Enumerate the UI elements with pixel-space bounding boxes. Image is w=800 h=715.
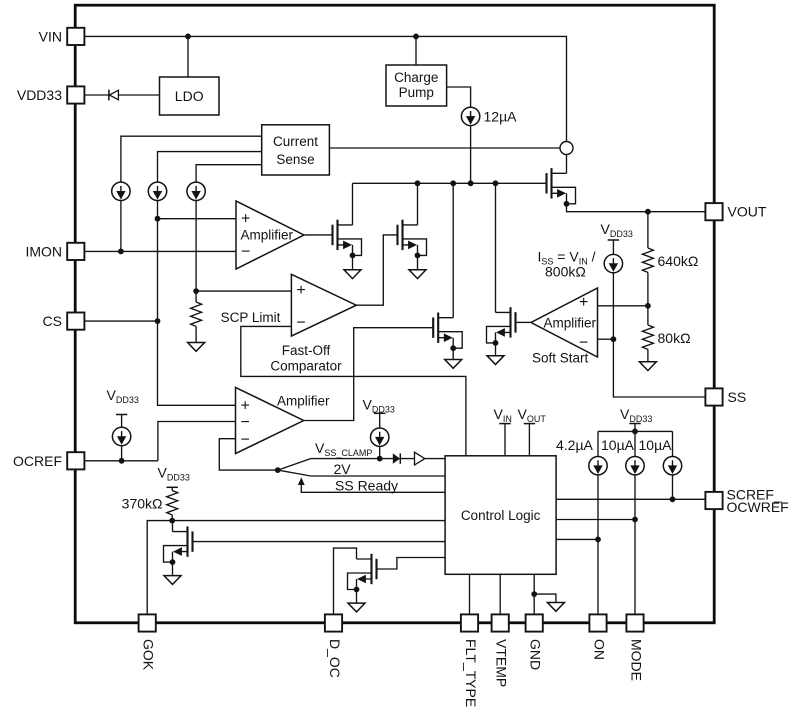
pin GOK [139, 614, 156, 631]
svg-text:ON: ON [591, 639, 607, 660]
sense element circle [560, 142, 573, 155]
wire SCP output to M2 gate [356, 235, 397, 305]
wire ChargePump top stem [415, 36, 417, 65]
node I1 to IMON [120, 201, 122, 252]
transistor M4 fast-off [433, 313, 462, 352]
svg-text:Amplifier: Amplifier [241, 228, 294, 243]
wire SCP plus input [196, 290, 291, 292]
node switch pivot [275, 467, 281, 473]
pin VIN [67, 28, 84, 45]
svg-text:−: − [241, 414, 250, 431]
pin CS [67, 313, 84, 330]
node amp1 plus junction [155, 216, 161, 222]
wire LDO top stem [187, 36, 189, 77]
wire D_OC net [334, 548, 357, 614]
pin VTEMP [492, 614, 509, 631]
ground under M7 [348, 603, 365, 612]
diode D2 [393, 453, 400, 463]
wire OCREF vdd source to OCREF [121, 415, 123, 461]
svg-text:CS: CS [43, 313, 62, 329]
pin ON [589, 614, 606, 631]
node ON junction [595, 537, 601, 543]
ground under M2 [409, 270, 426, 279]
node VIN-LDO junction [185, 34, 191, 40]
switch blade upper [278, 459, 311, 471]
svg-text:VIN: VIN [494, 406, 512, 424]
pin VDD33 [67, 86, 84, 103]
svg-text:MODE: MODE [628, 639, 644, 681]
wire VIN top rail [84, 36, 566, 141]
wire OCREF amp minus1 input [158, 422, 236, 461]
pin OCREF [67, 452, 84, 469]
svg-text:VOUT: VOUT [728, 204, 767, 220]
node SCREF junction [670, 496, 676, 502]
wire ON rail [597, 475, 599, 615]
transistor M1 [333, 220, 362, 259]
node M5 drain on bus [493, 180, 499, 186]
svg-text:2V: 2V [334, 461, 352, 477]
current source I3 [187, 182, 205, 200]
wire bias bus [598, 424, 673, 457]
wire M5 drain [495, 183, 497, 312]
svg-text:Sense: Sense [276, 152, 314, 167]
pin VOUT [705, 203, 722, 220]
wire M6 drain [172, 521, 174, 532]
op-amp U3 OCREF amplifier [236, 387, 304, 453]
svg-text:4.2µA: 4.2µA [556, 437, 594, 453]
wire M7 gate line [377, 558, 446, 570]
wire soft start amp output to M5 gate [516, 321, 532, 323]
wire CurrentSense output to sense circle [329, 147, 560, 149]
Current Sense block [262, 125, 330, 175]
svg-text:10µA: 10µA [601, 437, 635, 453]
resistor R1 640k [647, 212, 649, 248]
buffer into control logic [415, 452, 425, 465]
node M2 drain on bus [415, 180, 421, 186]
pin IMON [67, 243, 84, 260]
current source I4 OCREF [112, 427, 130, 445]
svg-text:GND: GND [528, 639, 544, 670]
wire VOUT stub control logic [528, 424, 530, 456]
wire I2 vertical rail [158, 201, 236, 406]
wire CurrentSense to source I2 [158, 152, 262, 183]
pin SS [705, 388, 722, 405]
svg-text:SS Ready: SS Ready [335, 478, 398, 494]
supply VDD33 tbar 370k [167, 486, 178, 488]
wire OCREF amp minus2 to switch pole [219, 439, 277, 470]
transistor M2 [398, 220, 427, 259]
resistor R4 370k [171, 487, 173, 490]
node 370k junction [169, 518, 175, 524]
current source I8 10uA [663, 457, 681, 475]
ground under M4 [445, 360, 462, 369]
node VOUT resistor junction [645, 209, 651, 215]
switch blade lower [278, 470, 311, 476]
wire ISS vdd stem [612, 240, 614, 254]
wire soft start amp plus input [598, 305, 648, 307]
svg-text:IMON: IMON [25, 243, 62, 259]
node divider junction [645, 303, 651, 309]
pin GND [526, 614, 543, 631]
current source I5 clamp [371, 428, 389, 446]
wire VTEMP stem [499, 574, 501, 614]
svg-text:Soft Start: Soft Start [532, 351, 589, 366]
wire control logic to SCREF_OCWREF pin [556, 498, 705, 500]
svg-text:VTEMP: VTEMP [494, 639, 510, 687]
Charge Pump block [386, 65, 447, 106]
svg-text:800kΩ: 800kΩ [545, 264, 586, 280]
wire GND stem [533, 574, 535, 614]
node bias bus junction [632, 429, 638, 435]
svg-text:80kΩ: 80kΩ [658, 330, 691, 346]
ground near GND pin [547, 603, 564, 612]
svg-text:GOK: GOK [141, 639, 157, 671]
pin D_OC [325, 614, 342, 631]
node 12uA on bus [468, 180, 474, 186]
resistor R3 threshold [195, 291, 197, 302]
ground under M5 [487, 356, 504, 365]
svg-text:12µA: 12µA [484, 109, 518, 125]
svg-text:−: − [296, 315, 305, 332]
svg-text:Amplifier: Amplifier [277, 394, 330, 409]
svg-text:VIN: VIN [39, 28, 62, 44]
wire VDD33 to diode to LDO [84, 94, 159, 96]
current source I10 ISS [604, 254, 622, 272]
resistor R2 80k [647, 306, 649, 325]
op-amp U2 SCP comparator [291, 274, 356, 336]
current source I9 12uA [461, 107, 479, 125]
svg-text:−: − [241, 244, 250, 261]
wire CurrentSense to source I3 [196, 165, 262, 182]
op-amp U1 current amplifier [236, 201, 304, 269]
svg-text:LDO: LDO [175, 88, 204, 104]
svg-text:−: − [241, 432, 250, 449]
node SCP plus junction [193, 288, 199, 294]
Control Logic block [445, 456, 556, 575]
svg-text:VOUT: VOUT [518, 406, 547, 424]
wire 2V line [311, 475, 445, 477]
wire M6 gate line [193, 541, 446, 543]
wire IMON net [84, 250, 236, 252]
svg-text:VDD33: VDD33 [601, 221, 633, 239]
ground under M1 [344, 270, 361, 279]
node OCREF current source junction [119, 458, 125, 464]
pin MODE [626, 614, 643, 631]
svg-text:Pump: Pump [399, 85, 434, 100]
wire control logic ON output [556, 538, 598, 540]
supply VDD33 tbar ISS [608, 239, 619, 241]
node M4 drain on bus [450, 180, 456, 186]
supply VDD33 tbar clamp [374, 412, 385, 414]
svg-text:+: + [296, 282, 305, 299]
wire FLT_TYPE stem [469, 574, 471, 614]
wire VIN stub control logic [504, 424, 506, 456]
pin SCREF_OCWREF [705, 492, 722, 509]
wire ChargePump to 12uA source [447, 87, 471, 107]
wire I3 to SCP plus [195, 201, 197, 292]
wire SCREF rail [672, 475, 674, 499]
svg-text:SS: SS [728, 389, 747, 405]
svg-text:640kΩ: 640kΩ [658, 253, 699, 269]
wire 12uA to gate bus [470, 126, 472, 184]
wire M4 drain [452, 183, 454, 317]
supply VDD33 tbar bias [629, 423, 640, 425]
wire gate bus [353, 182, 547, 184]
svg-text:Amplifier: Amplifier [544, 316, 597, 331]
wire GND branch [534, 594, 556, 602]
ground under M6 [164, 576, 181, 585]
svg-text:VDD33: VDD33 [107, 387, 139, 405]
node clamp source junction [377, 456, 383, 462]
svg-text:VDD33: VDD33 [363, 397, 395, 415]
svg-text:Fast-Off: Fast-Off [282, 343, 331, 358]
wire sense circle to pass FET drain [566, 155, 568, 174]
node CS junction [155, 318, 161, 324]
svg-text:+: + [579, 294, 588, 311]
wire pass FET source to VOUT [567, 204, 706, 212]
svg-text:VDD33: VDD33 [158, 465, 190, 483]
wire clamp vdd stem [379, 413, 381, 458]
svg-text:Control Logic: Control Logic [461, 508, 541, 523]
svg-text:10µA: 10µA [639, 437, 673, 453]
current source I6 4.2uA [589, 457, 607, 475]
wire GOK net [147, 521, 172, 615]
current source I7 10uA [626, 457, 644, 475]
node MODE junction [632, 517, 638, 523]
svg-text:Current: Current [273, 134, 318, 149]
wire CS net [84, 320, 157, 322]
wire M2 drain [417, 183, 419, 225]
svg-text:Charge: Charge [394, 70, 438, 85]
supply VDD33 tbar OCREF [116, 414, 127, 416]
op-amp U4 soft start amplifier [531, 288, 598, 357]
node GND branch junction [531, 591, 537, 597]
svg-text:+: + [241, 211, 250, 228]
transistor M3 pass FET [547, 168, 576, 207]
wire VSS_CLAMP line [311, 458, 445, 460]
svg-text:VDD33: VDD33 [17, 87, 62, 103]
svg-text:OCWREF: OCWREF [727, 499, 789, 515]
svg-text:D_OC: D_OC [327, 639, 343, 678]
SS Ready arrow [298, 477, 305, 485]
svg-text:VDD33: VDD33 [620, 406, 652, 424]
current source I2 [148, 182, 166, 200]
svg-text:+: + [241, 398, 250, 415]
svg-text:Comparator: Comparator [270, 359, 342, 374]
svg-text:SCP Limit: SCP Limit [221, 310, 281, 325]
wire M4 gate to OCREF amp output [304, 328, 434, 421]
IC boundary frame [75, 5, 714, 623]
wire 370k line to control logic [172, 520, 445, 522]
transistor M5 soft start [487, 307, 516, 346]
ground under R3 [188, 343, 205, 352]
transistor M6 GOK [164, 526, 193, 565]
wire SS Ready line [301, 484, 445, 492]
current source I1 [112, 182, 130, 200]
svg-text:VSS_CLAMP: VSS_CLAMP [315, 440, 372, 458]
wire MODE rail [634, 475, 636, 615]
svg-text:FLT_TYPE: FLT_TYPE [463, 639, 479, 707]
ground under R2 [639, 362, 656, 371]
wire amp1 output to M1 gate [304, 234, 333, 236]
wire CurrentSense to source I1 [121, 136, 262, 182]
node VIN-ChargePump junction [413, 34, 419, 40]
wire M1 drain [352, 183, 354, 225]
svg-text:OCREF: OCREF [13, 453, 62, 469]
wire ISS source to SS pin [613, 273, 705, 397]
transistor M7 D_OC [348, 554, 377, 593]
wire amp1 plus input [158, 218, 237, 220]
svg-text:−: − [579, 335, 588, 352]
LDO block [160, 77, 220, 115]
wire SCP minus to control logic [241, 326, 466, 455]
diode D1 [108, 90, 110, 101]
svg-text:370kΩ: 370kΩ [122, 496, 163, 512]
wire soft start amp minus input [598, 338, 614, 340]
wire control logic MODE output [556, 519, 635, 521]
pin FLT_TYPE [461, 614, 478, 631]
wire OCREF net [84, 460, 157, 462]
node soft start minus junction [611, 336, 617, 342]
